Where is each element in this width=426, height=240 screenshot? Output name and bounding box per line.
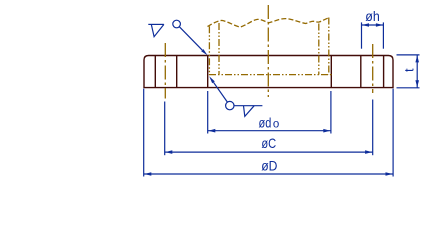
dimension øh line	[362, 24, 384, 26]
svg-text:øh: øh	[365, 8, 380, 24]
svg-text:øD: øD	[261, 157, 277, 173]
leader line 1	[179, 27, 202, 51]
dimension øh arrow left	[362, 23, 369, 27]
center line bolt hole left	[164, 43, 166, 99]
leader arrow 2	[209, 76, 215, 83]
dimension ødo extension line right	[330, 91, 332, 134]
dimension ødo extension line left	[207, 91, 209, 134]
bore right edge	[330, 56, 332, 88]
dimension øD extension line right	[392, 89, 394, 177]
leader arrow 1	[201, 49, 207, 55]
dimension ødo arrow left	[208, 129, 215, 133]
dimension øD arrow right	[386, 172, 393, 176]
dimension øC arrow left	[165, 150, 172, 154]
bolt hole left: left edge	[154, 56, 156, 88]
dimension t extension line bottom	[397, 87, 420, 89]
dimension t extension line top	[397, 54, 420, 56]
dimension øD extension line left	[143, 89, 145, 177]
bore left edge	[207, 56, 209, 88]
pipe phantom end face	[209, 74, 333, 76]
svg-text:o: o	[273, 118, 279, 130]
dimension øh arrow right	[376, 23, 383, 27]
pipe phantom outer wall right	[328, 18, 330, 75]
dimension t line	[416, 55, 418, 88]
dimension ødo line	[208, 130, 331, 132]
dimension øh extension line right	[382, 22, 384, 48]
surface finish symbol 1 triangle	[151, 24, 164, 36]
surface finish symbol 1 circle	[173, 20, 181, 28]
dimension øC line	[165, 151, 373, 153]
surface finish symbol 2 circle	[226, 101, 234, 109]
dimension t arrow top	[415, 55, 419, 62]
flange body outline	[144, 56, 393, 88]
pipe phantom inner wall left	[218, 23, 220, 75]
surface finish symbol 1 bar	[148, 23, 164, 25]
svg-text:ød: ød	[259, 114, 272, 130]
center line bolt hole right	[372, 44, 374, 93]
leader line 2	[214, 82, 228, 102]
bolt hole right: right edge	[383, 56, 385, 88]
svg-text:øC: øC	[261, 135, 276, 151]
pipe phantom inner wall right	[318, 24, 320, 75]
dimension øh extension line left	[361, 22, 363, 48]
dimension t arrow bottom	[415, 80, 419, 87]
pipe break line wavy top	[208, 18, 329, 27]
dimension ødo arrow right	[323, 129, 330, 133]
center line main axis	[267, 5, 269, 97]
dimension øC extension line right	[372, 100, 374, 156]
svg-text:t: t	[402, 68, 417, 72]
surface finish symbol 2 triangle	[244, 106, 255, 117]
pipe phantom outer wall left	[208, 26, 210, 75]
surface finish symbol 2 bar	[234, 105, 262, 107]
dimension øD line	[144, 173, 393, 175]
dimension øC arrow right	[365, 150, 372, 154]
bolt hole left: right edge	[176, 56, 178, 88]
dimension øC extension line left	[164, 102, 166, 156]
dimension øD arrow left	[144, 172, 151, 176]
bolt hole right: left edge	[360, 56, 362, 88]
